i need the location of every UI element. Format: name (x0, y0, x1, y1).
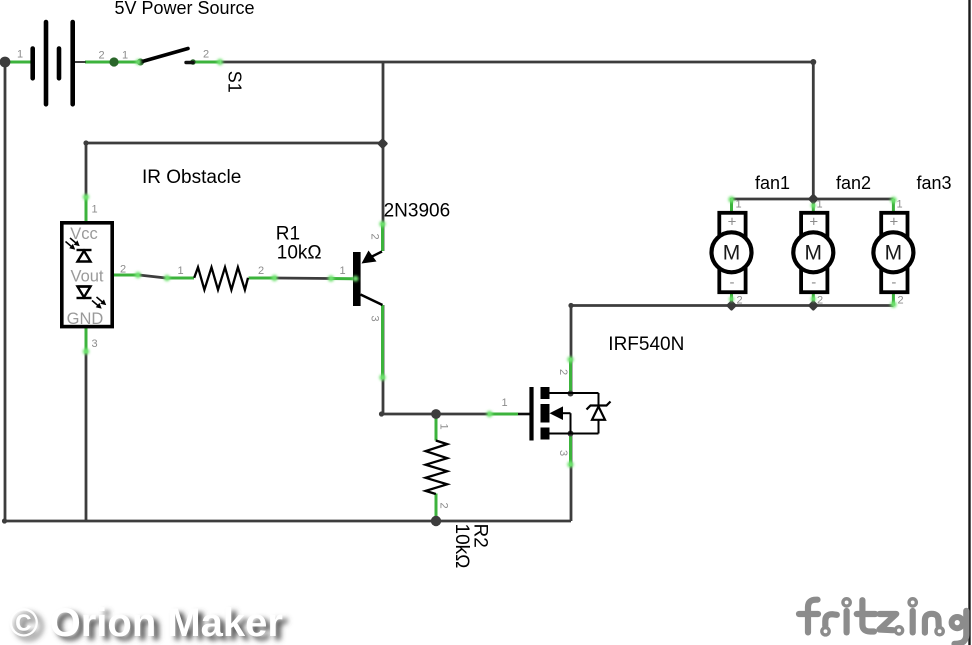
svg-text:1: 1 (896, 199, 902, 211)
svg-text:Vout: Vout (70, 268, 103, 286)
svg-text:1: 1 (501, 397, 507, 409)
svg-text:2: 2 (897, 295, 903, 307)
svg-text:GND: GND (67, 310, 104, 328)
svg-text:2: 2 (120, 264, 126, 276)
svg-text:10kΩ: 10kΩ (451, 524, 472, 569)
svg-text:1: 1 (122, 50, 128, 62)
svg-text:1: 1 (735, 199, 741, 211)
svg-text:-: - (891, 274, 896, 291)
svg-text:2: 2 (817, 295, 823, 307)
svg-text:M: M (723, 242, 741, 265)
svg-text:IRF540N: IRF540N (608, 334, 684, 355)
svg-text:2: 2 (258, 265, 264, 277)
svg-text:2N3906: 2N3906 (384, 200, 451, 221)
svg-text:fan1: fan1 (755, 173, 790, 193)
svg-text:+: + (890, 214, 899, 231)
svg-text:-: - (730, 274, 735, 291)
svg-text:M: M (805, 242, 823, 265)
svg-text:IR Obstacle: IR Obstacle (142, 167, 241, 188)
svg-text:3: 3 (91, 338, 97, 350)
svg-text:S1: S1 (225, 71, 245, 93)
svg-text:-: - (811, 274, 816, 291)
svg-text:Vcc: Vcc (70, 225, 98, 243)
svg-text:2: 2 (736, 295, 742, 307)
svg-text:2: 2 (557, 369, 569, 375)
svg-text:+: + (809, 214, 818, 231)
svg-text:1: 1 (339, 265, 345, 277)
svg-text:3: 3 (557, 450, 569, 456)
svg-text:1: 1 (437, 424, 449, 430)
svg-text:5V Power Source: 5V Power Source (115, 0, 255, 18)
svg-text:© Orion Maker: © Orion Maker (9, 601, 283, 645)
svg-text:1: 1 (816, 199, 822, 211)
svg-text:1: 1 (177, 265, 183, 277)
svg-text:fan3: fan3 (917, 173, 952, 193)
svg-text:2: 2 (369, 234, 381, 240)
svg-text:M: M (885, 242, 903, 265)
svg-text:2: 2 (437, 503, 449, 509)
svg-text:1: 1 (17, 49, 23, 61)
svg-text:fan2: fan2 (836, 173, 871, 193)
svg-text:3: 3 (369, 316, 381, 322)
svg-text:2: 2 (98, 50, 104, 62)
svg-text:1: 1 (91, 204, 97, 216)
svg-text:10kΩ: 10kΩ (277, 242, 322, 263)
svg-text:2: 2 (203, 49, 209, 61)
svg-text:+: + (728, 214, 737, 231)
